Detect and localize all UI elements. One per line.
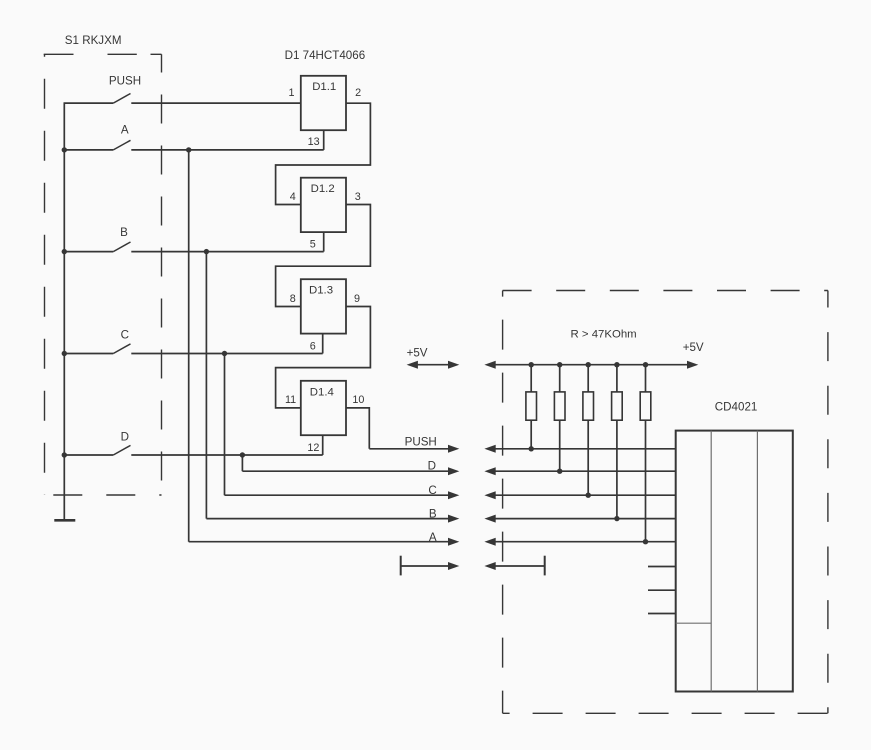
svg-text:A: A (121, 123, 129, 136)
svg-text:D1 74HCT4066: D1 74HCT4066 (285, 49, 366, 62)
svg-text:B: B (429, 508, 437, 521)
svg-text:3: 3 (355, 191, 361, 203)
svg-text:D1.2: D1.2 (311, 183, 335, 195)
svg-text:8: 8 (290, 293, 296, 305)
svg-text:D: D (121, 431, 129, 444)
svg-text:5: 5 (310, 239, 316, 251)
svg-text:10: 10 (352, 394, 364, 406)
svg-text:PUSH: PUSH (405, 435, 437, 448)
svg-text:D1.3: D1.3 (309, 284, 333, 296)
svg-text:PUSH: PUSH (109, 75, 141, 88)
svg-text:1: 1 (288, 87, 294, 99)
svg-text:A: A (429, 531, 437, 544)
svg-text:CD4021: CD4021 (715, 401, 758, 414)
svg-text:2: 2 (355, 87, 361, 99)
svg-text:+5V: +5V (683, 341, 704, 354)
svg-text:9: 9 (354, 293, 360, 305)
svg-text:R > 47KOhm: R > 47KOhm (571, 329, 637, 341)
svg-text:11: 11 (285, 394, 296, 406)
svg-text:4: 4 (290, 191, 296, 203)
svg-text:D1.4: D1.4 (310, 387, 334, 399)
svg-text:C: C (428, 484, 436, 497)
svg-text:+5V: +5V (407, 347, 428, 360)
svg-text:C: C (121, 328, 129, 341)
svg-text:D1.1: D1.1 (312, 81, 336, 93)
svg-text:S1 RKJXM: S1 RKJXM (65, 34, 122, 47)
svg-text:D: D (428, 460, 436, 473)
svg-text:13: 13 (308, 136, 320, 148)
svg-text:6: 6 (310, 341, 316, 353)
svg-text:12: 12 (307, 442, 319, 454)
svg-text:B: B (120, 226, 128, 239)
